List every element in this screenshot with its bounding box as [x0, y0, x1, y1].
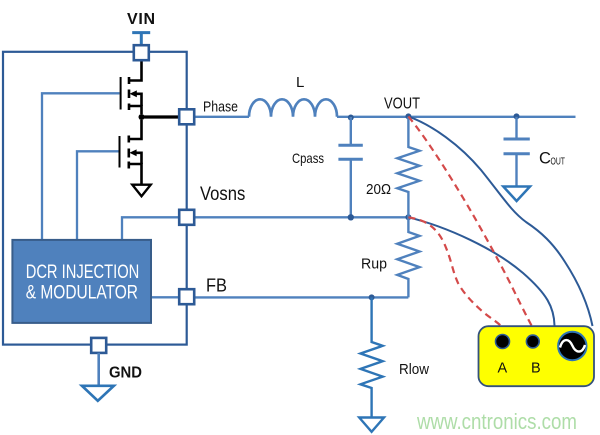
node Vosns tap [405, 214, 411, 220]
wire Phase to inductor [194, 116, 249, 118]
wire FB internal [151, 296, 179, 298]
node Cpass bottom [348, 214, 354, 220]
wire probe solid VOUT to generator right [408, 116, 592, 326]
terminal Vosns [179, 210, 194, 225]
terminal Phase [179, 109, 194, 124]
transistor Q1 high-side MOSFET [121, 60, 142, 114]
wire gate high-side [42, 93, 120, 240]
wire Vosns internal [122, 217, 179, 240]
wire Vosns rail [194, 216, 408, 218]
svg-text:A: A [498, 361, 508, 377]
generator output [558, 332, 586, 360]
resistor Rup [397, 217, 419, 297]
wire gate low-side [77, 151, 119, 240]
svg-text:VOUT: VOUT [384, 96, 420, 113]
svg-text:C: C [539, 150, 551, 168]
capacitor COUT [504, 117, 530, 186]
svg-text:Vosns: Vosns [200, 184, 245, 205]
svg-text:Phase: Phase [203, 100, 238, 116]
wire VOUT rail [337, 116, 576, 118]
probe input B [526, 335, 539, 348]
network analyzer box [479, 326, 595, 386]
resistor 20ohm [397, 117, 419, 218]
svg-text:Cpass: Cpass [292, 150, 324, 166]
svg-text:L: L [296, 74, 304, 91]
svg-text:& MODULATOR: & MODULATOR [26, 282, 138, 304]
DCR injection block [12, 240, 151, 323]
wire probe dashed Vosns to A [408, 217, 500, 325]
wire FB rail [194, 296, 408, 298]
ground Rlow [359, 418, 384, 432]
svg-text:20Ω: 20Ω [366, 182, 391, 198]
ground COUT [503, 187, 530, 202]
terminal GND [91, 338, 106, 353]
probe input A [496, 335, 510, 349]
node Cpass tap [348, 115, 354, 121]
node Phase (switch node) [139, 114, 145, 120]
svg-text:Rup: Rup [361, 256, 387, 273]
wire probe dashed VOUT to B [408, 116, 531, 325]
svg-text:FB: FB [206, 276, 227, 296]
VIN supply bar [132, 33, 150, 46]
wire phase black [142, 115, 180, 118]
terminal FB [179, 289, 194, 304]
wire GND stem [97, 353, 100, 386]
inductor L [249, 99, 337, 117]
svg-text:GND: GND [109, 365, 142, 382]
ground GND [82, 386, 114, 401]
capacitor Cpass [338, 117, 362, 217]
node VOUT [405, 113, 411, 119]
ground Q2 source [132, 185, 150, 197]
svg-text:VIN: VIN [127, 11, 155, 28]
node COUT tap [514, 113, 520, 119]
svg-text:OUT: OUT [551, 157, 566, 168]
svg-text:B: B [531, 361, 541, 377]
IC outer box U1 [3, 52, 187, 345]
resistor Rlow [361, 297, 383, 417]
transistor Q2 low-side MOSFET [120, 120, 142, 185]
svg-text:www.cntronics.com: www.cntronics.com [416, 409, 577, 434]
svg-text:Rlow: Rlow [399, 361, 429, 378]
terminal VIN [134, 45, 149, 60]
wire probe solid Vosns to generator [408, 217, 554, 325]
node Rlow tap [369, 294, 375, 300]
svg-text:DCR INJECTION: DCR INJECTION [26, 261, 140, 283]
